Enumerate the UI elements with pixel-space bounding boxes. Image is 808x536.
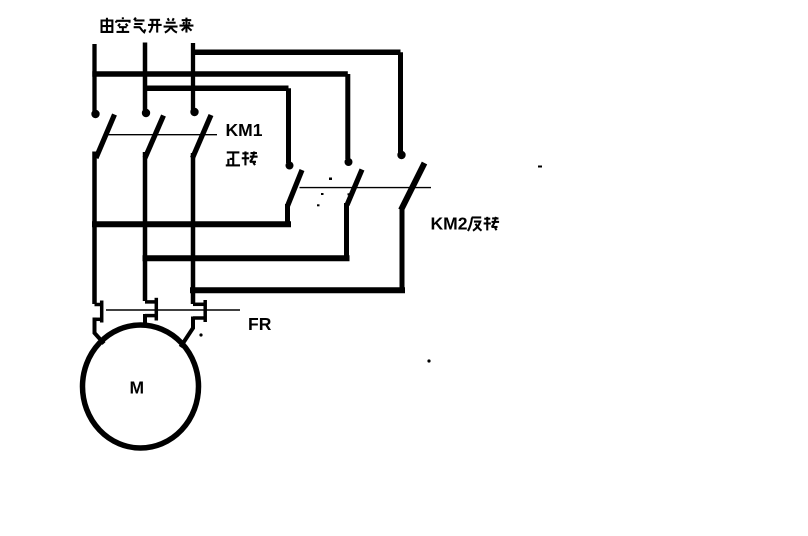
- contactor KM1 pole 2 (terminal dot + blade): [142, 109, 164, 158]
- wire rail to KM2 left terminal: [143, 88, 289, 163]
- motor M circle: [83, 325, 199, 448]
- wire rail to KM2 middle terminal: [92, 74, 347, 159]
- label text: 由空气开关来: [102, 17, 194, 32]
- wire KM2 pole2 output to phase2 (horizontal): [143, 255, 350, 261]
- contactor KM2 pole 3 (terminal dot + blade + lower wire): [397, 151, 424, 288]
- FR linkage line: [106, 309, 240, 311]
- contactor KM2 pole 1 (terminal dot + blade + lower wire): [286, 162, 303, 223]
- wire L3 incoming vertical: [191, 43, 195, 112]
- wire phase3 KM1 output vertical: [191, 153, 196, 304]
- label M: [130, 378, 145, 398]
- contactor KM2 pole 2 (terminal dot + blade + lower wire): [345, 158, 363, 256]
- thermal overload FR heater 1: [95, 301, 102, 323]
- contactor KM1 pole 1 (terminal dot + blade): [91, 110, 114, 158]
- wire phase2 KM1 output vertical: [143, 152, 148, 301]
- contactor KM1 pole 3 (terminal dot + blade): [190, 108, 211, 158]
- wire from FR1 into motor: [95, 318, 105, 344]
- label KM1: [226, 120, 263, 140]
- svg-text:M: M: [130, 378, 145, 398]
- thermal overload FR heater 2: [145, 298, 156, 321]
- label FR: [248, 314, 272, 334]
- label 反转: [468, 217, 499, 231]
- wire rail to KM2 right terminal: [191, 52, 401, 153]
- wire L2 incoming vertical: [143, 43, 148, 114]
- label KM2: [431, 214, 468, 234]
- wire from FR3 into motor: [181, 317, 194, 348]
- thermal overload FR heater 3: [193, 300, 205, 322]
- KM1 mechanical linkage line: [106, 134, 217, 136]
- wire KM2 pole3 output to phase3 (horizontal): [190, 287, 405, 293]
- wire phase1 KM1 output vertical: [92, 152, 97, 305]
- KM2 mechanical linkage line: [300, 187, 432, 189]
- label 正转: [226, 151, 258, 165]
- wire L1 incoming vertical: [92, 44, 96, 114]
- svg-text:KM1: KM1: [226, 120, 263, 140]
- wire KM2 pole1 output to phase1 (horizontal): [92, 221, 291, 227]
- svg-text:KM2: KM2: [431, 214, 468, 234]
- svg-text:FR: FR: [248, 314, 272, 334]
- stray marks (image noise reproduced): [199, 166, 542, 363]
- wire from FR2 into motor: [143, 314, 147, 327]
